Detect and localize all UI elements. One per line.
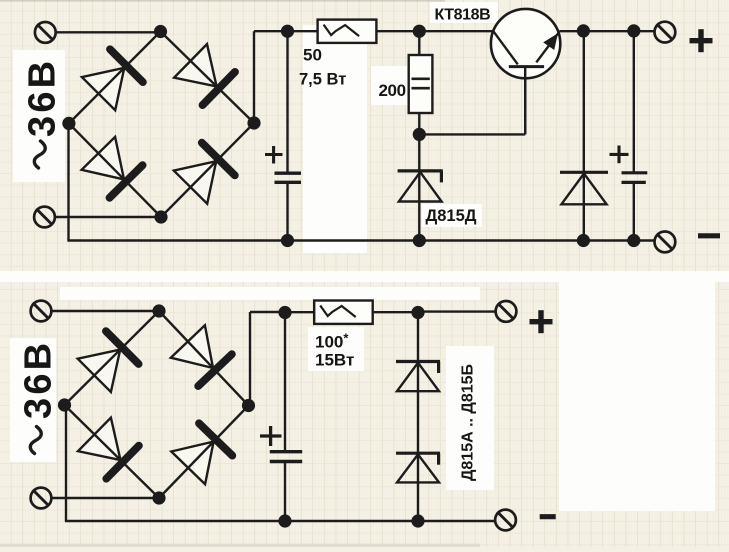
node C2 top [627,24,640,37]
zener VD12 (lower, Д815А..Д815Б) [396,453,440,482]
wire bridge2 arm left-bottom [65,405,160,498]
svg-text:200: 200 [379,81,406,100]
terminal X4 (minus output) [655,232,676,253]
terminal X2 (bottom AC input) [34,207,55,228]
resistor R3 100* 15Вт [314,301,373,324]
node VD6 top [577,24,590,37]
wire collector to output rail [560,30,655,32]
wire bridge2 right node up to plus rail [249,312,251,406]
svg-text:Д815А .. Д815Б: Д815А .. Д815Б [460,364,477,481]
zener VD5 Д815Д [398,171,443,202]
tilde of ~36В (top) [34,141,45,168]
wire bridge1 arm bottom-right [161,123,254,217]
wire bridge1 arm left-top [69,32,161,124]
node C2 bottom [627,234,640,247]
wire bridge1 arm left-bottom [69,123,161,217]
wire X6 to bridge2 bottom node [52,497,159,499]
svg-text:36В: 36В [22,58,64,137]
node bridge2 right [242,399,255,412]
svg-text:36В: 36В [18,340,60,419]
svg-text:15Вт: 15Вт [315,351,354,370]
diode VD10 (bridge2 bottom-right arm) [171,423,232,484]
capacitor C2 [622,173,648,183]
wire C1 to minus rail [286,182,288,240]
capacitor C1 [275,173,302,182]
wire junction to R3 [285,311,314,313]
svg-text:Д815Д: Д815Д [426,207,477,225]
svg-text:50: 50 [303,46,322,65]
wire node to R2 [418,31,420,55]
zener VD11 (upper, Д815А..Д815Б) [396,362,440,392]
wire VD6 branch [583,31,585,241]
wire R1 to node [376,30,419,32]
node R1/R2/Q1 junction [413,25,426,38]
wire R2 to node [418,113,420,134]
node C3 minus rail [278,514,291,527]
diode VD9 (bridge2 left-bottom arm) [78,418,139,479]
transistor Q1 КТ818В [491,9,560,135]
label minus (bottom circuit) [540,514,556,519]
wire bridge1 arm top-right [161,32,255,124]
polarity plus of C1 [265,146,283,164]
terminal X8 (minus output bottom) [495,510,516,531]
terminal X7 (plus output bottom) [496,301,517,322]
diode VD7 (bridge2 left-top arm) [78,331,139,392]
diode VD1 (bridge1 left-top arm) [82,49,143,110]
diode VD8 (bridge2 top-right arm) [171,325,232,386]
wire zener chain [417,313,419,522]
label minus (top circuit) [698,233,720,238]
terminal X3 (plus output) [655,22,676,43]
node zener chain minus rail [411,514,424,527]
wire base connection [419,133,525,135]
wire bridge2 arm left-top [65,311,160,405]
node bridge1 top [154,25,167,38]
node R3/zeners junction [411,306,424,319]
node junction top rail / C1 [281,25,294,38]
wire bridge1 right node up to plus rail [253,31,255,123]
capacitor C3 [270,452,302,462]
wire node to terminal X7 [418,310,496,312]
label plus (top circuit) [690,29,713,52]
wire bridge2 left node down to minus rail [65,405,67,521]
wire bridge1 left node down to minus rail [67,123,69,240]
polarity plus of C3 [260,426,282,446]
terminal X6 (bottom AC input 2) [31,488,52,509]
node junction bottom rail / C3 [278,306,291,319]
wire X5 to bridge2 top node [52,310,159,312]
terminal X5 (bottom AC input 1) [31,301,52,322]
node C1 minus rail [281,234,294,247]
tilde of ~36В (bottom) [30,427,41,454]
wire node to transistor emitter [419,30,492,32]
resistor R2 200 [409,55,433,113]
terminal X1 (top AC input) [35,22,56,43]
wire bridge2 arm bottom-right [159,406,249,499]
diode VD6 (output) [560,172,608,204]
node bridge1 right [247,116,260,129]
capacitor C1 wire from top rail [286,31,288,173]
wire node to zener VD5 [418,134,420,240]
svg-text:КТ818В: КТ818В [435,7,491,24]
wire C3 to minus rail [284,462,286,522]
wire bridge2 arm top-right [159,311,249,406]
diode VD4 (bridge1 bottom-right arm) [174,143,235,204]
svg-text:7,5 Вт: 7,5 Вт [299,71,346,89]
node bridge1 bottom [154,210,167,223]
wire junction to R1 [288,30,318,32]
diode VD2 (bridge1 top-right arm) [174,44,235,105]
node bridge2 bottom [152,491,165,504]
node bridge2 top [152,304,165,317]
capacitor C3 wire from rail [284,312,286,452]
label plus (bottom circuit) [530,310,553,333]
wire X1 to bridge top node [56,31,161,33]
wire R3 to node [373,311,418,313]
node VD6 bottom [577,234,590,247]
wire C2 branch bottom [633,182,635,240]
wire C2 branch top [633,31,635,173]
node bridge1 left [62,117,75,130]
node bridge2 left [58,398,71,411]
node VD5 minus rail [413,234,426,247]
node R2/VD5/base junction [413,128,426,141]
wire X2 to bridge bottom node [56,216,162,218]
polarity plus of C2 [610,146,629,164]
diode VD3 (bridge1 left-bottom arm) [82,137,143,198]
resistor R1 50 7,5Вт [318,20,377,43]
